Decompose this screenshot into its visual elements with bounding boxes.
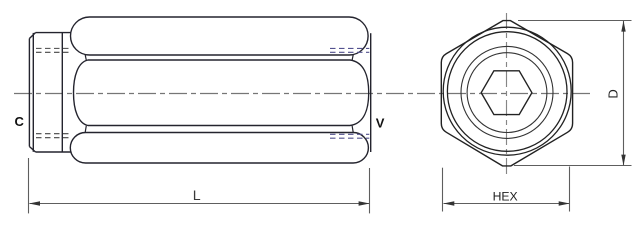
svg-text:L: L bbox=[193, 188, 201, 204]
chamfer circle inner bbox=[447, 32, 567, 152]
dimension HEX extension lines bbox=[442, 168, 444, 212]
svg-text:C: C bbox=[15, 114, 25, 129]
V port thread dashes bbox=[330, 48, 369, 138]
funnel tick top left bbox=[85, 54, 86, 60]
dimension L arrow left bbox=[29, 201, 40, 206]
centerline main axis bbox=[14, 93, 593, 95]
dimension HEX arrow left bbox=[443, 201, 454, 205]
hex flat bottom lozenge bbox=[70, 133, 368, 164]
dimension L line bbox=[30, 203, 370, 205]
hex body left end face bbox=[61, 33, 63, 152]
right figure vertical centerline bbox=[506, 13, 508, 175]
svg-text:HEX: HEX bbox=[493, 190, 518, 204]
left end cap cylinder bbox=[29, 33, 70, 152]
dimension D line bbox=[623, 21, 625, 165]
dimension HEX line bbox=[444, 203, 570, 205]
hex flat top lozenge bbox=[71, 17, 369, 55]
hex body right end face bbox=[370, 33, 372, 152]
dimension D arrow bottom bbox=[621, 155, 625, 166]
svg-text:D: D bbox=[606, 89, 621, 98]
dimension L extension lines bbox=[28, 158, 30, 213]
hexagon outline end view bbox=[441, 21, 572, 166]
dimension L arrow right bbox=[359, 201, 370, 206]
chamfer circle outer bbox=[443, 27, 571, 155]
dimension D extension lines bbox=[518, 20, 632, 22]
funnel tick bottom left bbox=[85, 126, 86, 133]
funnel tick bottom right bbox=[352, 126, 353, 133]
dimension HEX arrow right bbox=[559, 201, 570, 205]
dimension D arrow top bbox=[621, 21, 625, 32]
port circle bbox=[467, 53, 547, 133]
svg-text:V: V bbox=[376, 116, 385, 131]
funnel tick top right bbox=[352, 54, 353, 60]
hex socket bbox=[481, 71, 532, 115]
hex middle flat band bbox=[74, 60, 369, 126]
C port thread dashes bbox=[36, 48, 71, 137]
counterbore circle bbox=[461, 46, 553, 138]
